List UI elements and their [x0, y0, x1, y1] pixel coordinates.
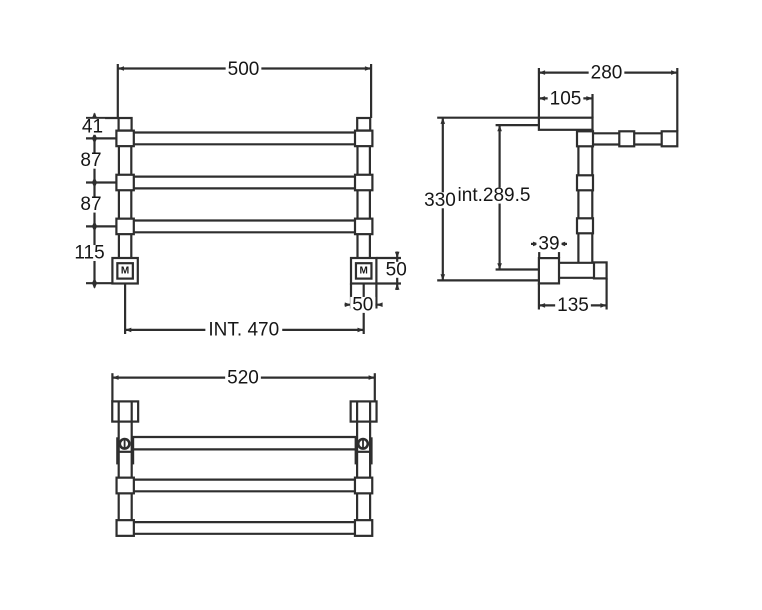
dim INT470 line with arrows: [125, 328, 364, 333]
dim 330 line with arrows: [441, 118, 446, 281]
dim 50 width line with arrows: [345, 302, 383, 307]
dim 135 label: [555, 295, 591, 316]
dim 39 label: [536, 234, 561, 255]
left post junction 2: [116, 175, 133, 191]
dim 135 extension lines: [539, 278, 607, 309]
left wall box outer: [112, 258, 137, 284]
dim 105 line with arrows: [539, 96, 593, 101]
svg-text:50: 50: [352, 294, 373, 315]
dim 520 label: [225, 368, 261, 389]
side post: [578, 130, 592, 263]
svg-text:135: 135: [557, 295, 589, 316]
dim 520 extension lines: [112, 373, 374, 401]
left chain extension lines: [86, 118, 119, 283]
plan rail 1: [132, 437, 357, 449]
dim 520 line with arrows: [112, 375, 374, 380]
dim 87 label (upper): [78, 150, 103, 171]
left post junction 3: [116, 219, 133, 235]
left chain line: [93, 114, 95, 288]
dim 115 label: [72, 243, 108, 264]
svg-text:50: 50: [386, 259, 407, 280]
side post junction 3: [577, 218, 593, 233]
dim 39 extension lines: [539, 240, 559, 258]
right plan screw: [358, 439, 368, 449]
rail 3 (front view): [124, 221, 364, 233]
dim 500 extension lines: [118, 64, 371, 118]
dim 330 label: [422, 190, 458, 211]
svg-text:280: 280: [591, 63, 623, 84]
dim 50 height extension lines: [376, 258, 401, 284]
left post top cap: [119, 118, 132, 131]
side rail end square: [662, 131, 678, 146]
right post top cap: [357, 118, 370, 131]
dim 330 extension lines: [437, 118, 539, 281]
left plan screw: [120, 439, 130, 449]
left wall box inner: [117, 263, 133, 278]
dim 280 line with arrows: [539, 70, 677, 75]
rail 1 (front view): [124, 133, 364, 145]
plan rail 3: [134, 522, 355, 534]
left chain tick diamonds: [92, 113, 97, 289]
svg-text:39: 39: [538, 234, 559, 255]
dim 500 line with arrows: [118, 66, 371, 71]
right post junction 3: [355, 219, 372, 235]
dim 41 label: [80, 116, 105, 137]
dim int289.5 label: [456, 185, 533, 206]
side bottom arm: [559, 263, 607, 278]
side top rail: [593, 133, 678, 144]
right plan wall plate: [351, 401, 377, 421]
right plan junction 1: [355, 478, 372, 494]
dim 39 line with arrows: [531, 242, 567, 247]
rail 2 (front view): [124, 177, 364, 189]
dim 87 label (lower): [78, 194, 103, 215]
dim int289.5 line with arrows: [497, 125, 502, 269]
left plan wall plate: [112, 401, 138, 421]
side top plate: [539, 118, 593, 130]
svg-text:500: 500: [228, 59, 260, 80]
right post junction 2: [355, 175, 372, 191]
left plan post: [119, 401, 132, 536]
right plan junction 2: [355, 520, 372, 536]
svg-text:115: 115: [74, 243, 104, 264]
dim 50 height label: [384, 259, 409, 280]
svg-text:105: 105: [550, 88, 582, 109]
dim 105 extension line: [591, 94, 593, 118]
left post (front view): [119, 131, 131, 259]
svg-text:41: 41: [82, 116, 103, 137]
dim 280 extension lines: [539, 68, 677, 131]
dim 50 width label: [350, 294, 375, 315]
side post junction 2: [577, 175, 593, 190]
left plan collar: [118, 437, 133, 464]
dim 50 height line with arrows: [395, 252, 400, 291]
dim int289.5 extension lines: [496, 125, 539, 269]
side rail square: [619, 131, 634, 146]
right post (front view): [358, 131, 370, 259]
dim 500 label: [226, 59, 262, 80]
svg-text:int.289.5: int.289.5: [458, 185, 531, 206]
right wall box inner: [356, 263, 372, 278]
side wall box: [539, 258, 559, 283]
side post junction 1: [577, 131, 593, 146]
side bottom arm end square: [594, 262, 607, 278]
plan rail 2: [134, 480, 355, 492]
svg-text:INT. 470: INT. 470: [208, 320, 279, 341]
left plan junction 2: [117, 520, 134, 536]
svg-text:330: 330: [424, 190, 456, 211]
dim 280 label: [589, 63, 625, 84]
left plan junction 1: [117, 478, 134, 494]
svg-text:520: 520: [227, 368, 259, 389]
right post junction 1: [355, 131, 372, 147]
svg-text:87: 87: [80, 194, 101, 215]
right plan post: [357, 401, 370, 536]
right wall box outer: [351, 258, 376, 284]
left wall box glyph: [121, 266, 129, 277]
dim 105 label: [548, 88, 584, 109]
right wall box glyph: [360, 266, 368, 277]
dim INT470 label: [205, 320, 282, 341]
right plan collar: [356, 437, 371, 464]
svg-text:M: M: [360, 266, 368, 277]
svg-text:87: 87: [80, 150, 101, 171]
svg-text:M: M: [121, 266, 129, 277]
dim INT470 extension lines: [125, 284, 364, 335]
dim 135 line with arrows: [539, 303, 607, 308]
dim 50 width extension lines: [351, 284, 376, 309]
left post junction 1: [116, 131, 133, 147]
